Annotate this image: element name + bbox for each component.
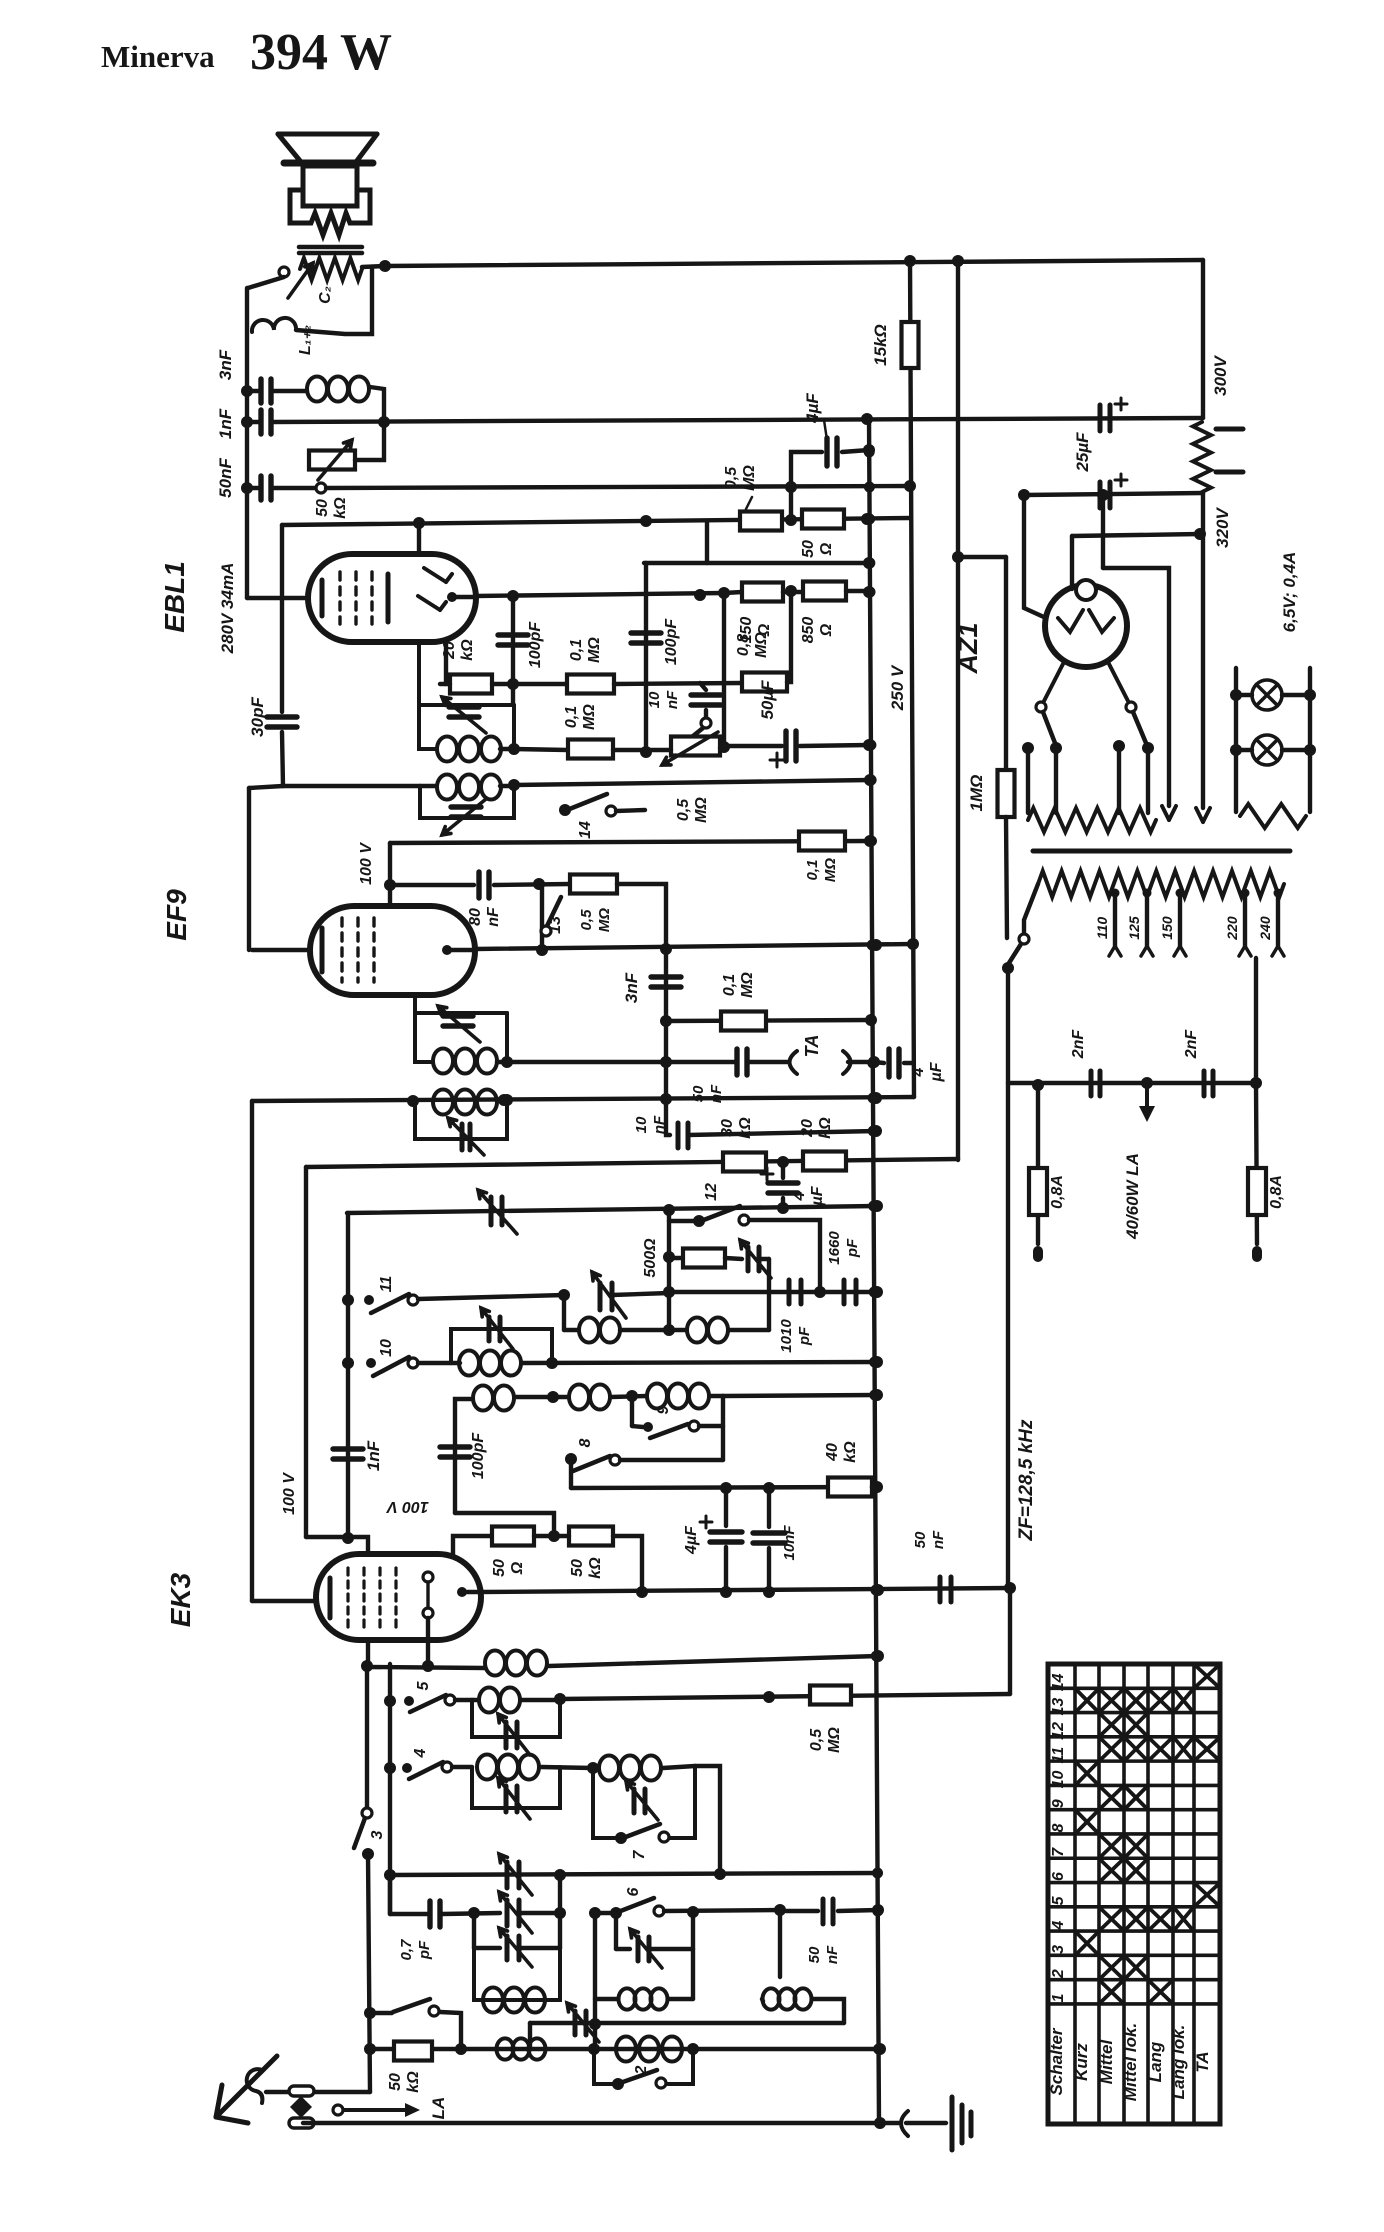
junction [863,444,875,456]
capacitor 100pF (1) [498,635,528,645]
wire [644,563,648,753]
tap tip [1272,946,1284,956]
switch 6 junction [610,1907,622,1919]
junction [1050,742,1062,754]
coil row1397 a [473,1386,514,1411]
capacitor 25uF (bottom) [1100,482,1110,508]
wire [521,1698,560,1702]
wire [649,1947,693,1951]
wire [1254,958,1258,1083]
junction [863,739,875,751]
bus junction [870,1482,881,1493]
switch table frame [1048,1664,1220,2124]
wire [1117,746,1121,813]
wire [266,2090,370,2094]
junction [870,1125,882,1137]
junction [533,878,545,890]
svg-text:µF: µF [928,1061,945,1082]
svg-text:100pF: 100pF [663,618,680,665]
T4 coil [433,1090,497,1115]
junction [407,1095,419,1107]
svg-text:10: 10 [378,1339,395,1357]
wire [1006,817,1007,938]
wire [1282,693,1310,697]
mains switch contact [1019,934,1029,944]
wire [272,389,307,393]
junction [864,774,876,786]
resistor 500Ohm [683,1249,725,1268]
wire [426,1618,430,1666]
junction [763,1482,775,1494]
wire [614,683,742,684]
wire mains filter row [1008,1081,1256,1085]
svg-text:MΩ: MΩ [693,797,710,823]
tap 220 [1241,889,1250,898]
junction [498,1094,510,1106]
junction [384,1869,396,1881]
svg-text:850: 850 [800,617,817,644]
tuning cap osc [600,1283,612,1310]
wire [451,1361,460,1365]
long wire (AF rail) [326,486,911,488]
svg-text:kΩ: kΩ [587,1557,604,1579]
wire [1282,748,1310,752]
T4 trimmer arrow [448,1118,484,1155]
svg-text:0,1: 0,1 [804,860,821,881]
wire [1103,568,1169,806]
wire [1236,693,1252,697]
svg-text:5: 5 [1050,1895,1067,1905]
wire [705,521,709,563]
wire [749,1220,820,1292]
wire [910,259,914,1097]
wire LW pad row [530,2021,844,2025]
svg-text:100pF: 100pF [527,621,544,668]
junction [785,514,797,526]
T1 coil [437,737,501,762]
T3 coil [433,1049,497,1074]
resistor 50kOhm (2) [569,1527,613,1546]
wire 50nF [247,486,260,490]
svg-text:125: 125 [1126,916,1142,940]
wire [748,1060,787,1064]
svg-text:10: 10 [646,691,663,708]
junction [718,587,730,599]
tube EBL1 envelope [308,554,476,642]
capacitor 2nF (2) [1204,1071,1213,1096]
svg-text:50: 50 [491,1559,508,1577]
wire grid return [252,1097,914,1101]
switch 11 pivot [364,1295,374,1305]
svg-text:6: 6 [625,1887,642,1896]
wire [632,1426,643,1427]
junction [777,1156,789,1168]
bleeder winding [1193,422,1211,492]
wire [906,2121,946,2125]
junction [718,741,730,753]
svg-text:80: 80 [467,908,484,926]
wire [695,1766,720,1875]
EBL1 grids (dashed) [340,572,372,624]
bus junction [866,836,877,847]
svg-text:kΩ: kΩ [817,1117,834,1139]
svg-text:4: 4 [412,1748,429,1758]
svg-text:EBL1: EBL1 [159,561,190,633]
junction [663,1286,675,1298]
switch blade [688,728,703,740]
junction [342,1532,354,1544]
wire [616,1947,630,1951]
wire [365,1666,369,1808]
svg-text:4µF: 4µF [683,1525,700,1555]
wire [620,1328,685,1332]
T2 trimmer arrow [442,799,486,835]
wire [250,1101,254,1601]
junction [904,480,916,492]
junction [588,2043,600,2055]
osc coil a [579,1318,620,1343]
wire [767,1488,771,1527]
junction [861,413,873,425]
switch blade [618,1898,654,1912]
wire [1026,748,1030,813]
contact switch 10 [408,1358,418,1368]
wire anode out [452,595,476,599]
wire [668,1997,693,2001]
capacitor 100pF (2) [631,633,661,643]
wire [455,1399,472,1513]
junction [694,589,706,601]
wire [245,288,249,598]
wire [1146,748,1150,813]
wire [688,1131,876,1135]
svg-text:50: 50 [800,540,817,558]
svg-text:10: 10 [633,1116,650,1133]
contact switch 3 [362,1808,372,1818]
wire 150 row [724,592,742,593]
T6 trimmer cap [506,1786,517,1812]
wire 0,1M row [666,1020,871,1021]
wire [699,1424,723,1428]
antenna arrow [216,2056,277,2123]
resistor 0,5MOhm [740,512,782,531]
svg-text:20: 20 [441,641,458,660]
wire [283,784,420,788]
contact switch 9 [689,1421,699,1431]
svg-text:100pF: 100pF [470,1432,487,1479]
svg-text:6,5V; 0,4A: 6,5V; 0,4A [1280,552,1299,633]
svg-text:kΩ: kΩ [405,2071,422,2093]
wire 3nF [247,389,260,393]
wire [514,780,870,785]
junction [587,1762,599,1774]
junction [342,1294,354,1306]
EBL1 cathode bar [320,580,325,616]
svg-text:100 V: 100 V [358,842,375,885]
junction [589,2018,601,2030]
wire antenna coil row [370,2047,880,2051]
capacitor 4uF (3) [768,1183,798,1193]
trimmer arrow [499,1892,532,1933]
tap tip [1109,946,1121,956]
svg-text:100 V: 100 V [386,1498,429,1515]
junction [870,939,882,951]
resistor 30kOhm [723,1153,766,1172]
svg-text:50: 50 [387,2073,404,2091]
EF9 cathode bar [320,928,325,972]
wire [440,2012,461,2049]
capacitor 30pF [267,717,297,727]
contact switch [429,2006,439,2016]
wire [630,1396,634,1426]
wire [874,1062,884,1063]
wire [1024,884,1038,934]
dial lamp 1 [1252,680,1282,710]
wire padder row [669,1290,877,1294]
winding [1038,871,1284,897]
junction [241,416,253,428]
junction [872,1650,884,1662]
junction [1230,689,1242,701]
junction [1113,740,1125,752]
svg-text:Kurz: Kurz [1072,2043,1091,2081]
fuse body [1248,1168,1266,1215]
anode row wire [476,593,724,596]
junction [907,938,919,950]
svg-text:3: 3 [1050,1945,1067,1954]
svg-text:3nF: 3nF [622,972,641,1003]
svg-text:50: 50 [806,1946,823,1963]
svg-text:50: 50 [314,499,331,517]
svg-text:8: 8 [577,1438,594,1447]
pot wiper arrow [318,440,352,480]
TA terminal arcs [790,1051,851,1074]
EF9 grids (dashed) [342,918,374,982]
table X marks [1077,1666,1218,2002]
wire [781,1198,785,1208]
ground symbol [952,2097,971,2150]
contact [423,1572,433,1582]
tap 150 [1176,889,1185,898]
junction [507,678,519,690]
contact switch 7 [659,1832,669,1842]
svg-text:Ω: Ω [756,623,773,637]
svg-text:Lang: Lang [1146,2041,1165,2082]
switch blade [573,1456,610,1471]
polarity + [1115,474,1127,486]
contact switch 8 [610,1455,620,1465]
wire [1054,748,1058,813]
switch blade [354,1818,365,1848]
junction [660,1015,672,1027]
wire [666,1099,670,1135]
switch blade [650,1424,688,1438]
wire [613,1536,642,1592]
EBL1 diode plates [418,568,452,610]
capacitor 100pF (3) [440,1447,470,1457]
wire [366,1640,370,1666]
junction [384,1762,396,1774]
resistor 0,5MOhm (3) [810,1686,851,1705]
switch blade [567,794,607,810]
antenna blob [290,2096,312,2118]
wire TA row [666,1060,736,1064]
wire osc feed row [571,1487,877,1488]
svg-text:240: 240 [1257,916,1273,941]
chassis arrow [1145,1083,1149,1106]
junction [874,2043,886,2055]
svg-text:150: 150 [1159,916,1175,940]
wire [767,1259,771,1330]
junction [1304,744,1316,756]
wire [595,1997,618,2001]
wire [617,884,666,949]
wire [1006,968,1010,1588]
svg-text:kΩ: kΩ [332,497,349,519]
trimmer cap B [507,1936,519,1960]
junction [1250,1077,1262,1089]
polarity + [761,1168,773,1180]
resistor 40kOhm [828,1478,872,1497]
wire [474,1946,500,1950]
junction [546,1357,558,1369]
svg-text:13: 13 [1050,1698,1067,1716]
wire [759,1257,769,1261]
svg-text:40: 40 [824,1443,841,1462]
EK3 grids (dashed) [348,1568,396,1628]
resistor 0,1MOhm (2) [568,740,613,759]
junction [626,1390,638,1402]
junction [554,1869,566,1881]
junction [241,482,253,494]
svg-text:MΩ: MΩ [822,858,839,882]
polarity + [770,753,784,767]
tap 240 [1274,889,1283,898]
prong tip [1162,806,1176,820]
tube EK3 envelope [316,1554,481,1640]
svg-text:µF: µF [809,1185,826,1206]
speaker horn [278,134,377,162]
T1 trimmer cap [449,707,479,717]
speaker magnet bracket with zigzag [290,190,370,235]
junction [874,2117,886,2129]
wire [444,642,448,684]
capacitor 4uF (2) [889,1049,899,1077]
wire [781,1162,785,1178]
junction [871,1481,883,1493]
wire [644,561,869,565]
tube AZ1 envelope [1045,585,1127,667]
speaker horn base bar [284,160,373,167]
wire [1201,534,1205,808]
coil row1397 c [647,1384,709,1409]
label pointer [746,497,752,509]
junction [1097,489,1109,501]
long bus wire (1nF rail) [272,418,1203,422]
wire [388,1875,392,1914]
svg-text:Minerva: Minerva [101,39,215,74]
contact switch 13 [541,926,551,936]
svg-text:nF: nF [485,906,502,927]
bus junction [871,1651,882,1662]
wire AVC row [347,1206,877,1213]
junction [536,944,548,956]
junction [660,1093,672,1105]
fuse body [1029,1168,1047,1215]
bus junction [869,1390,880,1401]
EK3 cathode lead [252,1599,316,1603]
wire [595,1911,610,1915]
svg-text:4µF: 4µF [803,393,822,424]
contact switch 14 [606,806,616,816]
wire [388,843,392,906]
coil loop sw10 bracket [451,1329,552,1363]
capacitor 25uF (top) [1100,405,1110,431]
contact switch 11 [408,1295,418,1305]
trimmer arrow [499,1928,532,1967]
wire [280,525,284,712]
svg-text:AZ1: AZ1 [953,622,983,674]
svg-text:kΩ: kΩ [737,1117,754,1139]
switch 2 junction [612,2078,624,2090]
junction [1018,489,1030,501]
sw10 coil [459,1351,521,1376]
bus junction [872,1868,883,1879]
wire [248,277,284,288]
bus junction [864,558,875,569]
svg-text:Lang lok.: Lang lok. [1169,2025,1188,2100]
prong tip [1196,808,1210,822]
wire [417,521,421,554]
wire [704,710,708,718]
wire coil row 1330 [564,1328,578,1332]
svg-text:1010: 1010 [778,1319,795,1353]
wire [370,2011,392,2015]
capacitor 50nF (2) [737,1049,747,1075]
svg-text:Ω: Ω [818,623,835,637]
wire [723,1395,877,1396]
wire [722,593,726,748]
junction [663,1204,675,1216]
svg-text:MΩ: MΩ [596,908,613,932]
wire [492,682,567,686]
junction [1230,744,1242,756]
wire [534,1534,569,1538]
wire [514,749,568,750]
junction [774,1904,786,1916]
capacitor 4uF (4) [710,1532,742,1542]
svg-text:9: 9 [1050,1799,1067,1808]
bus junction [864,482,875,493]
wire osc coil row [368,1667,485,1668]
ground bus wire [303,2121,899,2125]
svg-text:kΩ: kΩ [842,1441,859,1463]
junction [687,2043,699,2055]
table row lines [1048,1688,1220,2004]
capacitor 50nF (4) [823,1899,833,1924]
AZ1 filament lead right [1108,662,1128,701]
wire [613,748,671,752]
osc coil [485,1651,547,1676]
svg-text:50: 50 [912,1531,929,1548]
table column lines [1075,1664,1194,2124]
resistor 50Ohm [802,510,844,529]
T3 trimmer cap [443,1016,473,1026]
wire [1070,536,1074,589]
wire [778,1910,782,1977]
contact [1126,702,1136,712]
svg-text:12: 12 [703,1183,720,1201]
